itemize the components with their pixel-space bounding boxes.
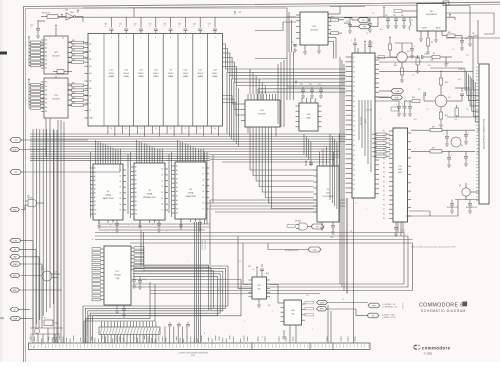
svg-text:R36: R36 [428, 65, 431, 67]
wires from RAM right lower pins to U26 [222, 96, 241, 116]
svg-text:15: 15 [125, 128, 127, 130]
svg-text:P5: P5 [383, 200, 385, 202]
svg-text:C: C [468, 133, 469, 135]
AND gate near color RAM [287, 223, 311, 230]
svg-text:C75: C75 [426, 109, 429, 111]
svg-text:D1: D1 [353, 111, 355, 113]
svg-text:C30: C30 [346, 21, 349, 23]
wires color RAM top feeds [320, 144, 338, 160]
svg-text:CLK: CLK [54, 272, 57, 274]
VIC U19 6567 [346, 38, 380, 198]
svg-text:L1: L1 [411, 20, 413, 22]
svg-text:D9: D9 [353, 150, 355, 152]
svg-text:U12: U12 [213, 70, 216, 72]
audio network wires [447, 88, 479, 117]
wire bus: data bus below RAM [30, 134, 346, 152]
svg-text:R44*: R44* [446, 63, 450, 65]
svg-text:U11: U11 [199, 70, 202, 72]
svg-text:BASIC ROM: BASIC ROM [103, 197, 114, 200]
analog switch U16 4066 [296, 98, 322, 131]
svg-text:D6: D6 [353, 86, 355, 88]
svg-text:D4: D4 [353, 76, 355, 78]
svg-text:C24: C24 [248, 266, 251, 268]
svg-text:.1: .1 [149, 26, 150, 28]
wire bundle cassette lines [195, 222, 207, 343]
svg-text:LUM: LUM [395, 91, 399, 93]
svg-text:R13: R13 [380, 29, 383, 31]
svg-text:(SID): (SID) [398, 172, 402, 174]
svg-text:C: C [351, 40, 352, 42]
svg-text:U21: U21 [110, 70, 113, 72]
svg-text:P2: P2 [383, 140, 385, 142]
svg-text:Q4: Q4 [461, 145, 463, 147]
svg-text:C58: C58 [385, 15, 388, 17]
svg-text:D7: D7 [203, 209, 205, 211]
wires RP to RF pad [344, 17, 378, 27]
svg-text:(RAM): (RAM) [109, 75, 115, 78]
svg-text:R28: R28 [386, 57, 389, 59]
wire bundle: SID area bends [398, 222, 413, 291]
wires from left pads [19, 140, 120, 328]
svg-text:D7: D7 [353, 140, 355, 142]
wires mid-right horizontal group [210, 134, 340, 162]
svg-text:B0: B0 [45, 82, 47, 84]
wire loop to U14 [83, 8, 296, 100]
wire bundle: nested routing loops bottom center [83, 266, 228, 343]
PLA left pin signal tags [92, 248, 101, 301]
title COMMODORE 64 [419, 302, 467, 309]
svg-text:R38: R38 [432, 127, 435, 129]
svg-text:P7: P7 [383, 163, 385, 165]
svg-text:RP1: RP1 [331, 17, 334, 19]
svg-text:D5: D5 [353, 130, 355, 132]
RAM bottom pins to bus [108, 126, 219, 137]
timer U30 556B [278, 300, 305, 325]
RAM bypass capacitors row [104, 17, 217, 33]
svg-text:C: C [414, 46, 415, 48]
svg-text:P5: P5 [383, 154, 385, 156]
svg-text:Q2: Q2 [448, 97, 450, 99]
connector pad LUM out [391, 89, 404, 94]
svg-text:R18: R18 [72, 92, 75, 94]
svg-text:D3: D3 [353, 170, 355, 172]
svg-text:R43: R43 [414, 119, 417, 121]
svg-text:R16: R16 [72, 83, 75, 85]
svg-text:(RAM): (RAM) [138, 75, 144, 78]
svg-text:4164-2: 4164-2 [212, 73, 218, 75]
svg-text:B5: B5 [45, 103, 47, 105]
svg-text:R17: R17 [72, 88, 75, 90]
svg-text:P3: P3 [383, 191, 385, 193]
connector pad RF out TP5 [358, 18, 370, 23]
svg-text:U30: U30 [306, 295, 309, 297]
components above SID [366, 97, 412, 116]
wire from AV pad [371, 58, 397, 87]
svg-text:1K: 1K [394, 63, 396, 65]
ROM U5 CHARACTER [172, 156, 209, 231]
svg-text:U30: U30 [291, 310, 294, 312]
connector pin labels above strip [31, 336, 356, 345]
svg-text:C61: C61 [119, 24, 122, 26]
svg-text:R11: R11 [72, 40, 75, 42]
svg-text:C19: C19 [29, 338, 32, 340]
svg-text:D2: D2 [120, 181, 122, 183]
svg-text:C64: C64 [163, 24, 166, 26]
svg-text:R40: R40 [412, 97, 415, 99]
clock circuit components below U14 [287, 80, 340, 98]
svg-text:MODULATOR: MODULATOR [426, 13, 437, 16]
svg-text:KERNAL ROM: KERNAL ROM [143, 196, 156, 199]
capacitors right of PLA [132, 272, 146, 289]
wire bus: horizontal RAM address bus to VIC [226, 69, 346, 86]
svg-text:D2: D2 [203, 179, 205, 181]
svg-text:D3: D3 [120, 187, 122, 189]
test point TP6 [394, 10, 417, 13]
signal tag boxes right of U30 [305, 301, 314, 316]
svg-text:*R44 and R45 should have been: *R44 and R45 should have been specified … [411, 245, 456, 248]
svg-text:D7: D7 [353, 189, 355, 191]
multiplexer U14 74LS258 [291, 12, 331, 54]
svg-text:.1: .1 [134, 26, 135, 28]
svg-text:U18: U18 [398, 166, 401, 168]
resistor R8 with inverter at top-left [41, 9, 83, 22]
svg-text:U29: U29 [257, 285, 260, 287]
svg-text:COMMODORE BUSINESS MACHINES: COMMODORE BUSINESS MACHINES [178, 352, 209, 355]
svg-text:D1: D1 [120, 175, 122, 177]
svg-text:U24: U24 [154, 70, 157, 72]
wire cascade into cartridge port [430, 68, 479, 122]
wire channel right of CPU upper [359, 100, 371, 172]
svg-text:COLOR: COLOR [366, 110, 372, 112]
svg-text:P1: P1 [383, 135, 385, 137]
svg-text:4164-2: 4164-2 [109, 73, 115, 75]
svg-text:Q1: Q1 [407, 51, 409, 53]
svg-text:D3: D3 [203, 185, 205, 187]
wires bus into U26 top [250, 69, 265, 94]
svg-text:D3: D3 [353, 121, 355, 123]
connector pad 9VAC [10, 308, 19, 312]
svg-text:D7: D7 [353, 91, 355, 93]
svg-text:D8: D8 [353, 96, 355, 98]
svg-text:U14: U14 [312, 26, 315, 28]
svg-text:CN6 (CARTRIDGE EXPANSION PORT): CN6 (CARTRIDGE EXPANSION PORT) [483, 118, 486, 149]
svg-text:(RAM): (RAM) [153, 75, 159, 78]
svg-text:R10: R10 [448, 32, 451, 34]
connector pad SP [10, 247, 20, 251]
wire bus: vertical corridor x204-214 [205, 152, 208, 224]
svg-text:D0: D0 [162, 169, 164, 171]
transistor Q3 near cartridge port [455, 183, 479, 200]
svg-text:C73: C73 [309, 84, 312, 86]
keyboard connector pins to bottom [102, 322, 156, 344]
svg-text:R8 1K 5%: R8 1K 5% [42, 13, 50, 15]
svg-text:(RAM): (RAM) [168, 75, 174, 78]
svg-text:ELECTROLYTIC: ELECTROLYTIC [466, 207, 478, 209]
ROM U4 KERNAL [131, 157, 168, 232]
connector pad RESET 1 [10, 288, 20, 292]
power above color RAM [305, 160, 313, 166]
connector pad cassette sense [317, 307, 328, 311]
svg-text:4164-2: 4164-2 [153, 73, 159, 75]
svg-text:B6: B6 [45, 107, 47, 109]
svg-text:C77: C77 [412, 75, 415, 77]
svg-text:P7: P7 [383, 209, 385, 211]
resistor pack RP2 [372, 133, 390, 157]
svg-text:L4: L4 [452, 49, 454, 51]
svg-text:(RAM): (RAM) [124, 75, 130, 78]
svg-text:D0: D0 [353, 155, 355, 157]
gate between multiplexers [53, 70, 72, 74]
svg-text:D7: D7 [120, 210, 122, 212]
svg-text:U9: U9 [169, 70, 171, 72]
svg-text:556: 556 [258, 289, 261, 291]
wires below U30 [282, 198, 354, 343]
electrolytic caps note [447, 200, 478, 214]
svg-text:P0: P0 [383, 131, 385, 133]
svg-text:D2: D2 [162, 180, 164, 182]
connector pad serial 1 [368, 303, 380, 308]
svg-text:U23: U23 [139, 70, 142, 72]
svg-text:R12: R12 [72, 45, 75, 47]
svg-text:C: C [402, 104, 403, 106]
power input fuse and filter [29, 318, 63, 344]
connector pad ATN [10, 273, 20, 277]
svg-text:(RAM): (RAM) [198, 75, 204, 78]
multiplexer U25 74LS257 [41, 24, 72, 74]
svg-text:P4: P4 [383, 195, 385, 197]
wire verticals left corridor extra [54, 130, 57, 343]
svg-text:6581: 6581 [398, 169, 402, 171]
resistor network RN2 (left column lower) [28, 78, 44, 109]
svg-text:4164-2: 4164-2 [183, 73, 189, 75]
svg-text:D2: D2 [353, 116, 355, 118]
svg-text:P6: P6 [383, 204, 385, 206]
svg-text:U8: U8 [350, 231, 352, 233]
svg-text:U31: U31 [41, 267, 44, 269]
color RAM U6 2114 [314, 160, 340, 234]
svg-text:U22: U22 [124, 70, 127, 72]
svg-text:ELECTROLYTIC: ELECTROLYTIC [447, 207, 459, 209]
svg-text:D1: D1 [162, 174, 164, 176]
svg-text:16: 16 [62, 38, 64, 40]
svg-text:U28: U28 [65, 10, 68, 12]
svg-text:8701: 8701 [41, 269, 45, 271]
wire pair from ROM area down [141, 230, 144, 266]
svg-text:D5: D5 [353, 179, 355, 181]
svg-text:Ø2: Ø2 [316, 226, 318, 228]
wire to 8.18MHz pad [268, 243, 308, 250]
test point tag TP7 [378, 56, 385, 59]
svg-text:D4: D4 [203, 191, 205, 193]
svg-text:B2: B2 [45, 90, 47, 92]
serial pad annotations [327, 303, 398, 320]
wires ROM left pin collectors [91, 152, 172, 218]
RF modulator input network [378, 6, 417, 30]
svg-text:P9: P9 [383, 218, 385, 220]
wire bus: verticals from mux area down [46, 118, 64, 343]
multiplexer U13 74LS257 [41, 76, 72, 118]
svg-text:15: 15 [199, 128, 201, 130]
wire bundle: extra nested loops [84, 280, 241, 344]
svg-text:C63: C63 [149, 24, 152, 26]
svg-text:SCHEMATIC DIAGRAM: SCHEMATIC DIAGRAM [421, 309, 466, 313]
svg-text:1: 1 [45, 347, 46, 349]
svg-text:D0: D0 [353, 106, 355, 108]
wires VIC right to connector [379, 60, 473, 98]
SID U18 6581 [383, 128, 411, 222]
svg-text:R39: R39 [432, 148, 435, 150]
PLA right pins with labels [131, 247, 144, 271]
svg-text:CHAR ROM: CHAR ROM [185, 195, 196, 198]
svg-text:P4: P4 [383, 149, 385, 151]
connector pad RF out 2 [359, 24, 371, 29]
svg-text:1uF: 1uF [466, 109, 469, 111]
RAM array 8x 4164 U21-U24 U9-U12 [88, 34, 223, 127]
svg-text:T: T [188, 261, 189, 263]
svg-text:4164-2: 4164-2 [138, 73, 144, 75]
svg-text:CR4: CR4 [55, 323, 58, 325]
svg-text:4164-2: 4164-2 [123, 73, 129, 75]
timer U29 556 [248, 264, 270, 307]
svg-text:B1: B1 [45, 86, 47, 88]
wires bus to ROM top pins [96, 140, 204, 158]
svg-text:74LS257: 74LS257 [52, 56, 61, 58]
svg-text:D4: D4 [353, 125, 355, 127]
connector pad RESET 2 [10, 316, 21, 320]
svg-text:C74: C74 [318, 84, 321, 86]
VIC left pin labels [353, 57, 355, 191]
connector pad CNT [10, 238, 21, 242]
connector pad phi0 [10, 170, 22, 175]
svg-text:D0: D0 [203, 168, 205, 170]
components near Q1 [410, 43, 421, 73]
svg-text:D1: D1 [203, 173, 205, 175]
connector pad FLAG [10, 262, 21, 266]
svg-text:C69: C69 [454, 119, 457, 121]
svg-text:C76: C76 [424, 54, 427, 56]
wires from PLA right tags [144, 265, 214, 310]
svg-text:D2: D2 [353, 67, 355, 69]
svg-text:2364A: 2364A [105, 194, 111, 197]
PLA U17 82S100 [101, 246, 131, 305]
svg-text:D7: D7 [162, 210, 164, 212]
svg-text:P0: P0 [383, 177, 385, 179]
svg-text:D4: D4 [162, 192, 164, 194]
svg-text:Q3: Q3 [459, 185, 461, 187]
connector pad serial 2 [367, 313, 379, 318]
keyboard connector CN1 hatched [99, 327, 160, 335]
svg-text:U26: U26 [260, 110, 263, 112]
connector pad PA2 [10, 255, 20, 259]
svg-text:R20: R20 [72, 102, 75, 104]
wire bundle: VIC down to serial bus [340, 198, 347, 294]
svg-text:C59: C59 [393, 15, 396, 17]
wire bus: long control lines mid page [95, 233, 413, 244]
wire verticals between U26 and 4066 [278, 60, 284, 127]
svg-text:D1: D1 [353, 160, 355, 162]
wire channel left of VIC [330, 134, 339, 212]
svg-text:PA2: PA2 [13, 256, 16, 259]
svg-text:74LS373: 74LS373 [258, 114, 266, 116]
svg-text:D5: D5 [162, 198, 164, 200]
svg-text:C71: C71 [372, 13, 375, 15]
resistor pack RP right of U14 [330, 7, 365, 59]
svg-text:.1: .1 [30, 27, 31, 29]
svg-text:15: 15 [185, 128, 187, 130]
SID bottom network [394, 200, 458, 237]
svg-text:C: C [372, 43, 373, 45]
wire bus: extra data lines right mid [258, 89, 346, 100]
svg-text:D4: D4 [120, 192, 122, 194]
connector pad AUDIO VIDEO [358, 55, 371, 60]
svg-text:U27: U27 [27, 196, 30, 198]
svg-text:B7: B7 [45, 111, 47, 113]
svg-text:4066: 4066 [306, 118, 310, 120]
ROM U3 BASIC [90, 158, 126, 232]
svg-text:D6: D6 [162, 204, 164, 206]
svg-text:MTR: MTR [320, 302, 325, 304]
connector pad phi2 out [311, 224, 324, 229]
svg-text:C72: C72 [300, 84, 303, 86]
resistors below RF modulator [426, 31, 462, 54]
wires collecting ROM bottom pins [99, 219, 210, 230]
series resistors R11-R15 (upper) [68, 40, 88, 64]
svg-text:C10: C10 [30, 25, 33, 27]
svg-text:P2: P2 [383, 186, 385, 188]
svg-text:C62: C62 [134, 24, 137, 26]
svg-text:F1: F1 [44, 318, 46, 320]
svg-text:R14: R14 [72, 55, 75, 57]
svg-text:C66: C66 [193, 24, 196, 26]
svg-text:TP5: TP5 [363, 26, 366, 28]
svg-text:(RAM): (RAM) [183, 75, 189, 78]
RAM left pin label strip [85, 43, 93, 120]
svg-text:P8: P8 [383, 168, 385, 170]
svg-text:C60: C60 [104, 24, 107, 26]
capacitor C10 cluster [30, 20, 45, 38]
svg-text:D6: D6 [203, 203, 205, 205]
wire bus: multiplexed address lines right of RAM (staircase) [223, 44, 239, 147]
svg-text:U16: U16 [307, 114, 310, 116]
svg-text:P: P [262, 337, 263, 339]
svg-text:2332A: 2332A [188, 192, 194, 195]
svg-text:C: C [396, 104, 397, 106]
svg-text:7406: 7406 [70, 12, 74, 14]
RF modulator CM1 [417, 1, 494, 42]
svg-text:74LS258: 74LS258 [310, 30, 318, 32]
svg-text:D5: D5 [120, 198, 122, 200]
cartridge expansion port CN6 [476, 64, 489, 204]
svg-text:D0: D0 [353, 57, 355, 59]
svg-text:C67: C67 [208, 24, 211, 26]
clock oscillator U31 with PAL/NTSC [21, 267, 60, 282]
commodore logo [413, 345, 450, 351]
connector pad SYNC out [391, 95, 403, 100]
svg-text:R19: R19 [72, 97, 75, 99]
svg-text:P8: P8 [383, 214, 385, 216]
connector pad cassette motor [317, 300, 328, 304]
user port / cassette connector strip [29, 343, 371, 350]
svg-text:R9: R9 [431, 42, 433, 44]
svg-text:GND: GND [13, 149, 18, 151]
svg-text:R27: R27 [266, 273, 269, 275]
svg-text:7406: 7406 [330, 237, 334, 239]
svg-text:C56: C56 [238, 261, 241, 263]
svg-text:P1: P1 [383, 181, 385, 183]
wires around timer [238, 236, 278, 302]
svg-text:82S100: 82S100 [114, 275, 121, 277]
svg-text:U8 7406: U8 7406 [295, 221, 301, 223]
